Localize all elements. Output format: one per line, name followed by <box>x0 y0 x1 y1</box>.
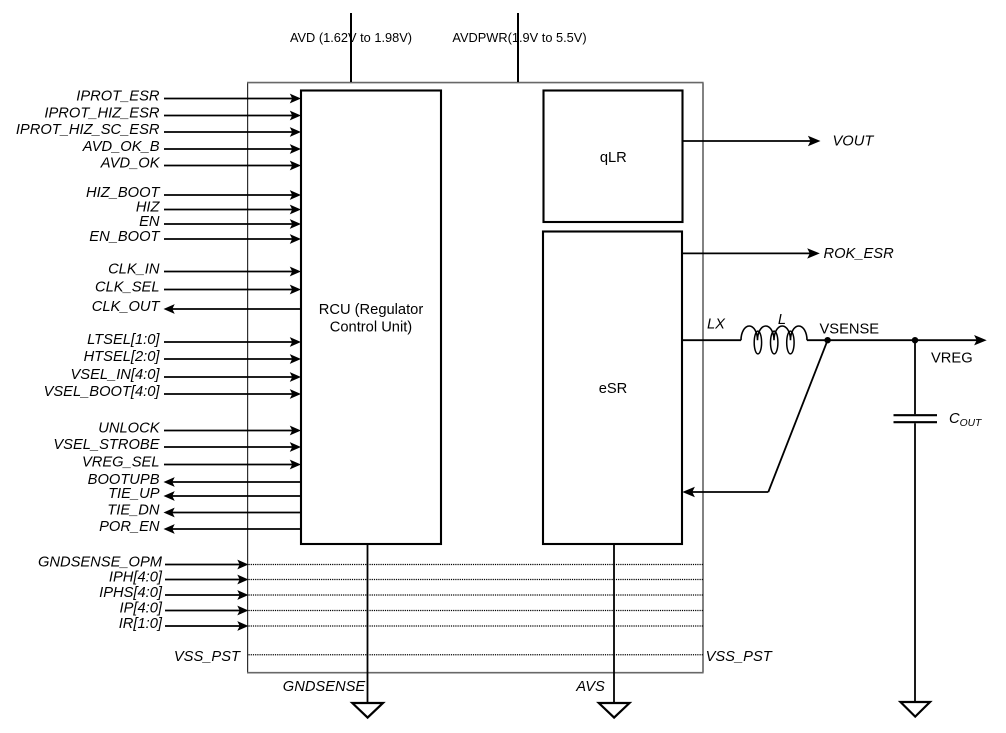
svg-text:L: L <box>778 312 786 328</box>
label COUT <box>949 411 982 429</box>
output signal BOOTUPB <box>88 472 301 488</box>
svg-text:qLR: qLR <box>600 150 627 166</box>
svg-text:VREG: VREG <box>931 351 973 367</box>
label GNDSENSE <box>283 679 366 695</box>
label VSS_PST (left) <box>174 649 241 665</box>
input signal IP[4:0] <box>120 601 703 617</box>
svg-text:GNDSENSE: GNDSENSE <box>283 679 366 695</box>
svg-text:IPROT_ESR: IPROT_ESR <box>76 89 160 105</box>
input signal EN <box>139 214 301 230</box>
svg-text:VSEL_BOOT[4:0]: VSEL_BOOT[4:0] <box>44 384 161 400</box>
svg-text:LX: LX <box>707 317 726 333</box>
svg-text:IPROT_HIZ_ESR: IPROT_HIZ_ESR <box>44 106 159 122</box>
svg-text:UNLOCK: UNLOCK <box>98 421 160 437</box>
svg-text:TIE_UP: TIE_UP <box>108 486 160 502</box>
output signal CLK_OUT <box>92 299 301 315</box>
ground symbol (COUT) <box>901 702 931 717</box>
label LX <box>707 317 726 333</box>
output VOUT wire <box>683 136 821 146</box>
input signal VREG_SEL <box>82 455 301 471</box>
svg-text:CLK_IN: CLK_IN <box>108 262 160 278</box>
input signal VSEL_BOOT[4:0] <box>44 384 301 400</box>
input signal IPROT_HIZ_SC_ESR <box>16 122 301 138</box>
svg-text:GNDSENSE_OPM: GNDSENSE_OPM <box>38 555 163 571</box>
ground symbol (AVS) <box>599 703 630 718</box>
inductor L <box>741 326 807 354</box>
block eSR <box>543 232 682 545</box>
svg-text:VSEL_IN[4:0]: VSEL_IN[4:0] <box>71 367 161 383</box>
power net AVDPWR wire <box>517 13 519 82</box>
feedback wire VSENSE to eSR <box>682 340 827 497</box>
svg-text:IPHS[4:0]: IPHS[4:0] <box>99 585 163 601</box>
svg-text:IR[1:0]: IR[1:0] <box>119 616 163 632</box>
net LX wire (eSR to inductor) <box>682 339 741 341</box>
svg-text:IPH[4:0]: IPH[4:0] <box>109 570 163 586</box>
input signal LTSEL[1:0] <box>87 332 301 348</box>
svg-text:TIE_DN: TIE_DN <box>107 503 160 519</box>
output signal TIE_DN <box>107 503 301 519</box>
wire VSENSE to VREG output <box>828 335 987 345</box>
input signal HTSEL[2:0] <box>84 349 301 365</box>
node junction dot at COUT tap <box>912 337 918 343</box>
ground symbol (GNDSENSE) <box>352 703 383 718</box>
power net AVD wire <box>350 13 352 82</box>
svg-text:eSR: eSR <box>599 381 628 397</box>
svg-text:VSS_PST: VSS_PST <box>174 649 241 665</box>
input signal AVD_OK_B <box>82 139 301 155</box>
input signal GNDSENSE_OPM <box>38 555 703 571</box>
svg-text:LTSEL[1:0]: LTSEL[1:0] <box>87 332 160 348</box>
input signal CLK_SEL <box>95 280 301 296</box>
input signal VSEL_STROBE <box>53 437 301 453</box>
svg-text:EN_BOOT: EN_BOOT <box>89 229 160 245</box>
svg-text:ROK_ESR: ROK_ESR <box>824 246 895 262</box>
svg-text:AVDPWR(1.9V to 5.5V): AVDPWR(1.9V to 5.5V) <box>452 30 586 45</box>
input signal HIZ <box>136 200 301 216</box>
label VSS_PST (right) <box>706 649 773 665</box>
label VOUT <box>833 133 875 149</box>
svg-text:AVD (1.62V to 1.98V): AVD (1.62V to 1.98V) <box>290 30 412 45</box>
input signal CLK_IN <box>108 262 301 278</box>
svg-text:VREG_SEL: VREG_SEL <box>82 455 160 471</box>
input signal IPROT_ESR <box>76 89 301 105</box>
wire AVS (eSR to ground) <box>613 544 615 702</box>
svg-text:CLK_SEL: CLK_SEL <box>95 280 160 296</box>
input signal AVD_OK <box>100 156 301 172</box>
input signal IPHS[4:0] <box>99 585 703 601</box>
node VSENSE junction dot <box>824 337 830 343</box>
capacitor COUT <box>894 340 938 702</box>
svg-text:VSS_PST: VSS_PST <box>706 649 773 665</box>
input signal IR[1:0] <box>119 616 703 632</box>
svg-text:POR_EN: POR_EN <box>99 519 160 535</box>
net VSS_PST dotted rail <box>249 654 704 656</box>
block RCU (Regulator Control Unit) <box>301 91 441 545</box>
svg-text:Control Unit): Control Unit) <box>330 320 412 336</box>
input signal HIZ_BOOT <box>86 185 301 201</box>
input signal UNLOCK <box>98 421 301 437</box>
input signal VSEL_IN[4:0] <box>71 367 302 383</box>
output ROK_ESR wire <box>682 248 820 258</box>
chip boundary box <box>247 83 704 673</box>
svg-text:VSENSE: VSENSE <box>820 322 880 338</box>
wire GNDSENSE (RCU to ground) <box>367 544 369 702</box>
svg-text:AVD_OK: AVD_OK <box>100 156 161 172</box>
svg-text:AVD_OK_B: AVD_OK_B <box>82 139 160 155</box>
svg-text:IPROT_HIZ_SC_ESR: IPROT_HIZ_SC_ESR <box>16 122 160 138</box>
svg-text:IP[4:0]: IP[4:0] <box>120 601 163 617</box>
output signal POR_EN <box>99 519 301 535</box>
svg-text:CLK_OUT: CLK_OUT <box>92 299 161 315</box>
label L <box>778 312 786 328</box>
label VSENSE <box>820 322 880 338</box>
svg-text:VOUT: VOUT <box>833 133 875 149</box>
block qLR <box>544 91 683 223</box>
svg-text:HTSEL[2:0]: HTSEL[2:0] <box>84 349 161 365</box>
power label AVDPWR(1.9V to 5.5V) <box>452 30 586 45</box>
label VREG <box>931 351 973 367</box>
input signal IPH[4:0] <box>109 570 703 586</box>
svg-text:EN: EN <box>139 214 160 230</box>
svg-text:AVS: AVS <box>575 679 605 695</box>
wire inductor to VSENSE node <box>807 339 828 341</box>
label ROK_ESR <box>824 246 895 262</box>
label AVS <box>575 679 605 695</box>
input signal IPROT_HIZ_ESR <box>44 106 301 122</box>
svg-text:RCU (Regulator: RCU (Regulator <box>319 302 424 318</box>
svg-text:VSEL_STROBE: VSEL_STROBE <box>53 437 159 453</box>
output signal TIE_UP <box>108 486 301 502</box>
input signal EN_BOOT <box>89 229 301 245</box>
power label AVD (1.62V to 1.98V) <box>290 30 412 45</box>
